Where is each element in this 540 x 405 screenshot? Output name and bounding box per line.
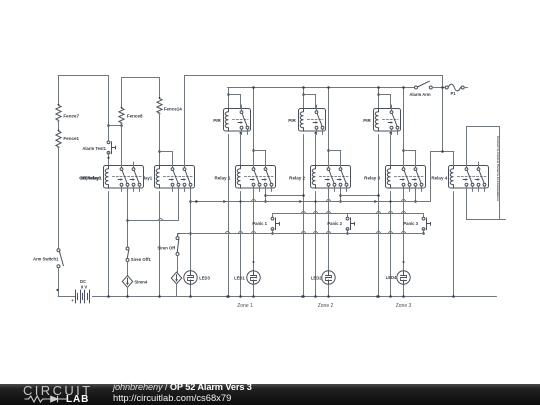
svg-text:Contact to Control Panel in Ac: Contact to Control Panel in Accommodatio… — [496, 136, 500, 201]
svg-text:PIR: PIR — [213, 118, 221, 123]
svg-text:Panic 3: Panic 3 — [403, 221, 418, 226]
svg-text:Arm Switch1: Arm Switch1 — [33, 257, 59, 262]
svg-text:Alarm Test1: Alarm Test1 — [82, 146, 106, 151]
svg-text:Relay 4: Relay 4 — [431, 175, 447, 180]
svg-text:LED4: LED4 — [386, 275, 397, 280]
svg-text:Relay 2: Relay 2 — [289, 175, 305, 180]
svg-text:Siren Off1: Siren Off1 — [131, 257, 152, 262]
svg-text:Alarm Arm: Alarm Arm — [409, 92, 431, 97]
svg-text:Zone 1: Zone 1 — [237, 303, 253, 309]
svg-text:lay1: lay1 — [144, 175, 153, 180]
svg-text:Fence7: Fence7 — [63, 113, 79, 118]
svg-text:PIR: PIR — [288, 118, 296, 123]
svg-text:LED1: LED1 — [234, 275, 245, 280]
svg-text:Relay 3: Relay 3 — [364, 175, 380, 180]
svg-text:DB Relay1: DB Relay1 — [80, 175, 102, 180]
svg-text:Panic 2: Panic 2 — [327, 221, 342, 226]
svg-text:P1: P1 — [450, 91, 456, 96]
svg-text:Fence1: Fence1 — [63, 136, 79, 141]
svg-text:+: + — [71, 298, 74, 303]
svg-text:LED2: LED2 — [311, 275, 322, 280]
svg-text:PIR: PIR — [363, 118, 371, 123]
svg-text:Zone 3: Zone 3 — [396, 303, 412, 309]
svg-text:Relay 1: Relay 1 — [214, 175, 230, 180]
svg-text:Zone 2: Zone 2 — [318, 303, 334, 309]
svg-text:LED3: LED3 — [199, 275, 210, 280]
svg-text:Siren4: Siren4 — [134, 279, 147, 284]
svg-text:Fence14: Fence14 — [164, 107, 183, 112]
svg-text:Siren Off: Siren Off — [157, 246, 175, 251]
svg-text:9 V: 9 V — [81, 284, 87, 289]
svg-text:Fence8: Fence8 — [127, 113, 143, 118]
svg-text:DC: DC — [80, 279, 86, 284]
svg-text:Panic 1: Panic 1 — [252, 221, 267, 226]
